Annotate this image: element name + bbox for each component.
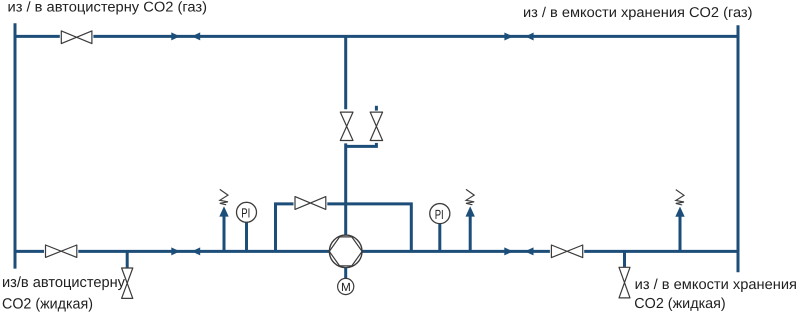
relief valve PSV1 arrow: [219, 206, 228, 216]
valve V6 on bottom pipe left: [44, 244, 78, 258]
flow arrow pair bottom-left: [171, 247, 200, 255]
pump P1 impeller hexagon: [329, 237, 362, 266]
relief valve PSV1 stem: [223, 214, 226, 251]
valve V7 on bottom pipe right: [550, 244, 584, 259]
svg-text:из / в емкости хранения CO2 (г: из / в емкости хранения CO2 (газ): [523, 5, 753, 21]
svg-text:из/в автоцистерну: из/в автоцистерну: [2, 275, 126, 291]
svg-text:PI: PI: [241, 206, 250, 221]
wire: left riser: [14, 23, 17, 268]
valve V4 on pump bypass: [294, 196, 328, 211]
gauge PI1: [237, 202, 257, 222]
relief valve PSV2 stem: [469, 214, 472, 251]
motor M1: [338, 278, 354, 294]
valve V8 vertical hanging: [619, 267, 630, 298]
wire: pump to motor: [344, 268, 347, 279]
valve V8 hanging stub (storage liquid): [623, 251, 626, 267]
gauge PI2 stem: [438, 223, 441, 251]
wire: pump bypass loop: [276, 204, 412, 252]
flow arrow pair top-right: [504, 33, 533, 41]
valve V5 vertical hanging: [122, 268, 133, 298]
wire: stub above valve V3: [375, 106, 378, 112]
valve V2 vertical on center drop: [339, 111, 354, 143]
svg-text:CO2 (жидкая): CO2 (жидкая): [634, 296, 725, 312]
relief valve PSV3 arrow: [675, 207, 684, 217]
valve V5 hanging stub (truck liquid): [126, 251, 129, 267]
svg-text:из / в автоцистерну CO2 (газ): из / в автоцистерну CO2 (газ): [8, 0, 208, 16]
gauge PI1 stem: [245, 222, 248, 251]
wire: center line down to pump: [344, 143, 347, 237]
svg-text:M: M: [341, 280, 351, 294]
pump P1 body: [329, 235, 362, 268]
svg-text:CO2 (жидкая): CO2 (жидкая): [2, 296, 93, 312]
relief valve PSV2 spring: [466, 189, 474, 204]
relief valve PSV3 spring: [676, 190, 684, 205]
valve V3 vertical with stub: [369, 111, 383, 143]
valve V1 on top gas header: [60, 30, 94, 45]
svg-text:из / в емкости хранения: из / в емкости хранения: [635, 277, 797, 293]
wire: V3 outlet elbow to center line: [346, 141, 377, 147]
wire: center drop from gas header: [344, 36, 347, 109]
relief valve PSV1 spring: [220, 189, 228, 204]
flow arrow pair bottom-right: [504, 247, 533, 255]
wire: bottom liquid pipe: [15, 250, 738, 253]
flow arrow pair top-left: [171, 32, 200, 40]
relief valve PSV3 stem: [679, 214, 682, 251]
wire: right riser: [737, 25, 740, 272]
relief valve PSV2 arrow: [466, 206, 475, 216]
gauge PI2: [430, 204, 450, 224]
svg-text:PI: PI: [435, 207, 444, 222]
wire: top gas header pipe: [15, 35, 738, 38]
